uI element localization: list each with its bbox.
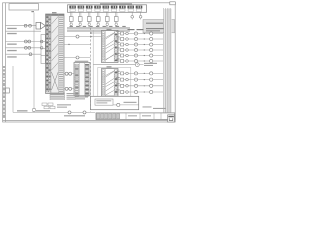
wire vertical bus B [33, 13, 35, 113]
contact hatch A2 [106, 33, 114, 60]
terminal strip TB1 [68, 5, 147, 13]
connector block X1 [46, 14, 64, 94]
labels below X2 [75, 96, 88, 99]
wire cross link [93, 64, 135, 66]
title block strip [96, 113, 175, 120]
junction box left border [6, 88, 10, 93]
relay contact row U3 [116, 42, 163, 46]
page corner mark [170, 2, 176, 5]
label C-102 [7, 33, 17, 34]
relay contact row U5 [116, 53, 163, 57]
notes box top-left [9, 4, 39, 10]
label T-201 [36, 110, 50, 111]
label A3 [107, 66, 112, 67]
terminal list under X1 [50, 93, 76, 100]
horizontal wiring bus [67, 26, 130, 32]
right vertical wiring bus [164, 8, 172, 112]
left margin vertical title text [3, 66, 4, 118]
label C-105 [7, 56, 17, 57]
wire feed to A2 [90, 32, 101, 34]
connector block X2 [74, 63, 90, 97]
label above X2 [75, 61, 89, 62]
border frame [3, 3, 176, 122]
enclosure around A3 [98, 67, 131, 97]
wire input row 4 [6, 47, 42, 49]
relay contact row U6 [116, 58, 163, 62]
splice circle row 5 [29, 53, 32, 56]
enclosure left edge [92, 30, 94, 97]
splice circles row 1 [24, 24, 31, 27]
pilot label [144, 63, 157, 66]
contact block A2 [102, 31, 119, 63]
label C-104 [7, 50, 17, 51]
terminal drops [69, 13, 142, 28]
coupler P1 [64, 72, 74, 75]
node 5 label [31, 11, 34, 12]
title block logo [168, 115, 175, 122]
wire input row 1 [6, 25, 37, 27]
label A2 [107, 29, 112, 30]
wire input row 2 [6, 30, 42, 32]
label above X1 [52, 12, 57, 13]
splice circles row 4 [24, 46, 42, 49]
wire bottom feeder [13, 111, 95, 113]
relay contact row L1 [116, 71, 163, 75]
label right of PS1 [143, 106, 167, 109]
relay contact row U4 [116, 47, 163, 51]
right junction panel [143, 20, 175, 33]
label T-200 [17, 110, 28, 111]
label bottom [64, 115, 85, 116]
relay contact row L2 [116, 77, 163, 81]
splice circles row 3 [24, 40, 42, 43]
terminal stack TB3 [42, 103, 71, 109]
power supply PS1 [91, 96, 139, 109]
wire X1 to A2 [64, 35, 101, 38]
arrow junction bus B [33, 109, 36, 112]
splice circle bottom 1 [68, 111, 71, 114]
relay contact row L3 [116, 83, 163, 87]
filter component U1 [36, 22, 46, 29]
terminal strip title [100, 3, 132, 4]
pilot device PL1 [135, 63, 143, 67]
connector strip J2 [41, 35, 45, 64]
contact hatch A3 [106, 71, 114, 95]
dashed enclosure boundary [90, 28, 92, 112]
label C-103 [7, 44, 17, 45]
label C-101 [7, 28, 17, 29]
coupler P2 [64, 87, 74, 90]
contact block A3 [102, 69, 119, 97]
wire vertical bus A [12, 66, 14, 112]
relay contact row U2 [116, 36, 163, 40]
relay contact row U1 [116, 31, 163, 35]
wire input row 5 [6, 53, 42, 55]
wire X1 mid [64, 44, 91, 45]
labels 24 Volt [128, 29, 144, 30]
wire input row 3 [6, 41, 42, 43]
wire X1 aux [64, 56, 91, 59]
splice circle bottom 2 [83, 111, 86, 114]
relay contact row L4 [116, 89, 163, 93]
